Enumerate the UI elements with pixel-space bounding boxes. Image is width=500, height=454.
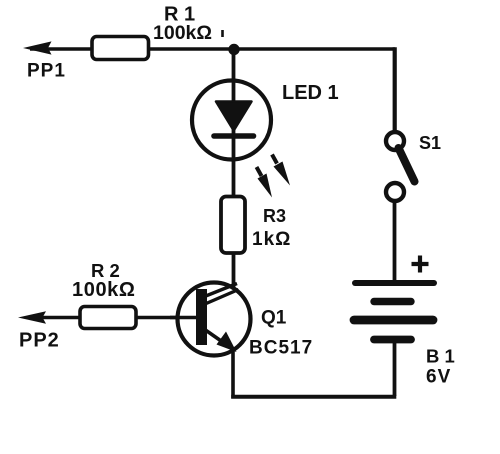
wire emitter down: [231, 350, 235, 398]
wire vertical LED branch (junction to R3): [232, 49, 236, 198]
label Q1 type BC517: [249, 338, 313, 359]
label R3: [263, 206, 286, 226]
LED 1 cathode bar: [214, 133, 254, 139]
svg-text:PP2: PP2: [19, 330, 60, 352]
LED light arrow right: [272, 155, 290, 186]
wire bottom horizontal: [231, 395, 396, 399]
wire right vertical top (corner to switch S1): [393, 47, 397, 133]
svg-text:BC517: BC517: [249, 338, 313, 359]
wire base from PP2 arrow to transistor: [28, 316, 178, 320]
svg-text:S1: S1: [419, 133, 441, 153]
switch S1 lever: [399, 148, 415, 182]
label B1 voltage 6V: [426, 367, 451, 388]
transistor Q1 base wire inside: [170, 316, 198, 320]
svg-text:PP1: PP1: [27, 61, 66, 82]
transistor Q1 emitter with arrow: [204, 329, 237, 352]
switch S1 top contact: [386, 132, 404, 150]
wire switch to battery: [393, 200, 397, 283]
probe arrow PP2: [18, 311, 46, 324]
resistor R3: [221, 197, 245, 254]
battery B1 plate 1 long: [355, 280, 434, 286]
transistor Q1 circle: [178, 283, 251, 356]
label R2: [91, 260, 120, 281]
label R1 value stray tick: [221, 30, 224, 37]
label S1: [419, 133, 441, 153]
transistor Q1 base bar: [196, 289, 207, 345]
resistor R2: [80, 307, 136, 329]
svg-text:100kΩ: 100kΩ: [72, 279, 136, 301]
label Q1: [261, 308, 287, 329]
label R1: [164, 4, 195, 26]
probe arrow PP1: [23, 41, 52, 54]
resistor R1: [92, 37, 149, 60]
label LED 1: [282, 82, 339, 104]
battery B1 plus sign: [412, 256, 429, 273]
svg-text:R3: R3: [263, 206, 286, 226]
transistor Q1 collector double line: [205, 284, 239, 305]
label R1 value 100k ohm: [153, 22, 212, 44]
LED 1 anode triangle: [216, 102, 252, 131]
svg-text:6V: 6V: [426, 367, 451, 388]
svg-text:Q1: Q1: [261, 308, 287, 329]
svg-text:R 2: R 2: [91, 260, 120, 281]
wire battery to bottom wire: [393, 340, 397, 396]
svg-text:LED 1: LED 1: [282, 82, 339, 104]
battery B1 plate 2 short: [374, 298, 411, 305]
node junction dot at R1/LED branch: [228, 44, 239, 55]
battery B1 plate 4 short: [374, 336, 411, 344]
svg-text:100kΩ: 100kΩ: [153, 22, 212, 44]
label R2 value 100k ohm: [72, 279, 136, 301]
wire R3 to transistor collector: [232, 251, 236, 288]
LED light arrow left: [257, 167, 273, 198]
label PP2: [19, 330, 60, 352]
label PP1: [27, 61, 66, 82]
switch S1 bottom contact: [386, 183, 404, 201]
LED 1 circle: [192, 81, 271, 160]
label B1: [426, 346, 455, 367]
wire top horizontal from PP1 arrow to right corner: [30, 47, 395, 51]
svg-text:B 1: B 1: [426, 346, 455, 367]
svg-text:1kΩ: 1kΩ: [252, 229, 291, 250]
battery B1 plate 3 long: [354, 316, 433, 325]
label R3 value 1k ohm: [252, 229, 291, 250]
